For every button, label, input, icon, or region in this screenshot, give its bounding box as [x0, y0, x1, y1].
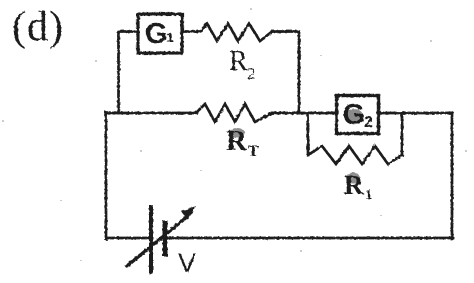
bottom rail left segment	[106, 237, 151, 240]
svg-text:2: 2	[364, 114, 373, 131]
svg-text:2: 2	[247, 64, 256, 83]
resistor RT	[196, 104, 272, 122]
bottom rail right segment	[166, 237, 453, 240]
battery V (variable source)	[127, 206, 196, 272]
svg-text:R: R	[344, 170, 364, 200]
svg-text:R: R	[226, 125, 248, 157]
svg-text:1: 1	[365, 187, 373, 203]
wire from R2 right going down to middle rail	[272, 32, 299, 114]
R2 value label	[229, 46, 256, 83]
middle rail left segment	[106, 112, 196, 115]
svg-text:G: G	[145, 18, 168, 50]
svg-text:V: V	[178, 248, 196, 278]
svg-text:T: T	[248, 143, 259, 160]
svg-text:(d): (d)	[12, 4, 64, 50]
svg-text:1: 1	[167, 30, 174, 45]
svg-text:R: R	[229, 46, 248, 77]
left rail wire	[105, 112, 108, 239]
svg-text:G: G	[343, 99, 366, 131]
wire R1 branch left drop	[307, 113, 310, 155]
galvanometer G1	[138, 14, 182, 53]
wire from node A up-left of G1 down to middle rail	[119, 32, 139, 114]
middle rail segment to G2	[272, 112, 336, 115]
RT value label	[226, 125, 259, 160]
wire R1 branch right rise	[401, 113, 404, 155]
galvanometer G2	[337, 96, 379, 134]
resistor R1	[308, 146, 402, 164]
wire G1 right lead	[182, 30, 201, 33]
wire G2 right to right rail	[378, 112, 452, 115]
right rail wire	[451, 113, 454, 239]
R1 value label	[344, 170, 373, 203]
resistor R2	[201, 24, 272, 42]
